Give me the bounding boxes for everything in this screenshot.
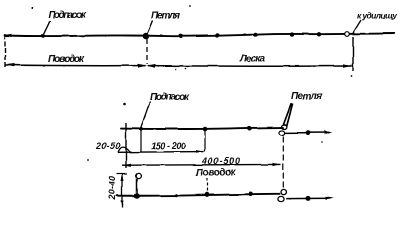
svg-text:20-40: 20-40 <box>107 176 117 201</box>
extension line at loop (dashed) <box>146 39 148 64</box>
speckle <box>31 7 33 9</box>
svg-text:150 - 200: 150 - 200 <box>151 141 186 151</box>
leader wire to loop node <box>148 21 154 35</box>
svg-text:Подпасок: Подпасок <box>150 92 190 103</box>
extension tick at shot <box>204 130 206 152</box>
svg-text:20-50: 20-50 <box>95 141 120 151</box>
shot dot 3 <box>253 33 257 37</box>
svg-text:к удилищу: к удилищу <box>357 11 398 21</box>
vertical dimension 20-40 <box>121 174 123 208</box>
wire after bottom loop with arrow <box>287 197 332 199</box>
svg-text:Петля: Петля <box>151 11 180 22</box>
dashed extension from loop down <box>282 137 284 190</box>
shot dot 2 <box>215 33 219 37</box>
dashed leader from Поводок to line <box>206 178 208 194</box>
svg-text:Поводок: Поводок <box>196 168 237 179</box>
shot dot on lower rig 2 <box>247 126 252 131</box>
leader wire to podpasok <box>43 21 50 36</box>
svg-text:Подпасок: Подпасок <box>48 10 87 21</box>
shot bottom line 2 <box>249 192 254 197</box>
dimension line 400-500 <box>122 163 281 166</box>
extension line right <box>352 37 354 72</box>
speckle <box>87 159 89 161</box>
speckle <box>185 68 187 70</box>
dimension line 150-200 <box>118 151 204 154</box>
extension crossbar at hook end <box>125 123 127 168</box>
svg-text:400-500: 400-500 <box>201 156 240 166</box>
node: dropper junction <box>134 193 140 199</box>
speckle <box>189 5 191 7</box>
shot dot 4 <box>290 32 294 36</box>
wire: top main fishing line <box>5 34 395 37</box>
loop base ring 2 <box>279 131 285 136</box>
loop (петля) of upper rig: teardrop <box>283 104 292 126</box>
dimension line Поводок <box>5 64 145 67</box>
dimension line Леска <box>148 65 352 68</box>
wire after loop with arrow <box>285 132 330 134</box>
leader curl for 20-50 <box>118 147 131 152</box>
bottom loop ring 2 <box>278 196 284 201</box>
node: podpasok small shot <box>41 34 45 38</box>
svg-text:Поводок: Поводок <box>48 54 85 65</box>
leader wire to lower podpasok <box>141 102 150 128</box>
connector ring <box>345 32 350 37</box>
speckle <box>350 75 352 77</box>
hook ring <box>136 173 141 178</box>
hook dropper <box>136 179 138 196</box>
leader wire to rod end <box>353 20 361 33</box>
loop base ring 1 <box>282 125 287 129</box>
bottom loop ring 1 <box>281 189 287 194</box>
speckle <box>321 141 323 143</box>
extension line left end <box>4 34 6 68</box>
speckle <box>175 68 177 70</box>
wire: bottom rig line <box>117 194 279 196</box>
svg-text:Леска: Леска <box>239 54 265 65</box>
node: lower podpasok <box>139 127 143 131</box>
shot at leader junction <box>205 192 210 197</box>
svg-text:Петля: Петля <box>291 91 322 102</box>
node: loop junction dot <box>143 33 150 40</box>
shot dot on lower rig <box>203 127 208 132</box>
wire: lower rig main line <box>121 128 283 129</box>
small shot bottom line <box>176 194 179 197</box>
speckle <box>124 103 127 106</box>
shot dot 1 <box>179 34 183 38</box>
shot dot 5 <box>317 32 321 36</box>
extension tick at podpasok <box>140 129 142 152</box>
arrow at left end of main line <box>4 34 12 37</box>
